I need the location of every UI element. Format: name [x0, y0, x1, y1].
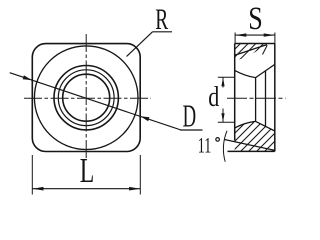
- d arrow down: [221, 113, 224, 122]
- d extension line upper: [218, 76, 235, 78]
- bore front edge vertical: [255, 78, 257, 122]
- side view left vertical: [234, 44, 236, 141]
- upper cone edge: [256, 64, 275, 77]
- arrowhead at left edge: [23, 75, 32, 80]
- degree symbol: [216, 138, 220, 142]
- vertical centerline: [85, 34, 87, 161]
- bore circle: [63, 74, 110, 121]
- side view top edge: [235, 43, 275, 45]
- arrowhead at right edge: [140, 116, 149, 121]
- svg-text:D: D: [183, 98, 197, 134]
- top side-face slant: [235, 45, 267, 56]
- d extension line lower: [218, 121, 235, 123]
- countersink rim circle: [54, 66, 118, 130]
- L extension line left: [31, 155, 33, 195]
- angle dimension arc: [223, 131, 227, 162]
- S arrow left: [235, 33, 246, 36]
- svg-text:d: d: [208, 82, 219, 113]
- leader underline for D: [180, 129, 203, 131]
- R leader underline: [153, 31, 173, 33]
- lower hatching: [212, 112, 312, 156]
- svg-text:L: L: [80, 152, 95, 190]
- svg-text:S: S: [248, 1, 262, 37]
- side view bottom edge: [228, 150, 275, 152]
- L arrow right: [129, 187, 140, 191]
- D dimension diagonal line: [10, 73, 181, 130]
- 11 degree tapered side edge: [225, 140, 275, 151]
- R leader line: [127, 32, 153, 57]
- upper hatching: [220, 38, 269, 64]
- d dimension line lower segment: [222, 109, 224, 123]
- svg-text:11: 11: [198, 133, 212, 157]
- L extension line right: [139, 155, 141, 195]
- lower countersink curve: [235, 121, 256, 128]
- bore back edge vertical: [265, 71, 267, 127]
- side view right vertical: [274, 44, 276, 152]
- S arrow right: [264, 33, 275, 36]
- top face edge circle: [34, 46, 138, 150]
- L arrow left: [32, 187, 43, 191]
- d arrow up: [221, 77, 224, 86]
- upper countersink curve: [235, 70, 256, 77]
- horizontal centerline: [24, 97, 151, 99]
- S extension line left: [234, 33, 236, 44]
- L dimension line: [32, 188, 140, 190]
- chamfer circle: [58, 70, 114, 126]
- extra hatch stroke near slant end: [263, 45, 268, 54]
- insert body outline: [32, 44, 140, 152]
- S dimension line: [235, 34, 275, 36]
- S extension line right: [274, 33, 276, 44]
- section centerline: [227, 97, 286, 99]
- lower cone edge: [256, 121, 275, 131]
- d dimension line upper segment: [222, 77, 224, 87]
